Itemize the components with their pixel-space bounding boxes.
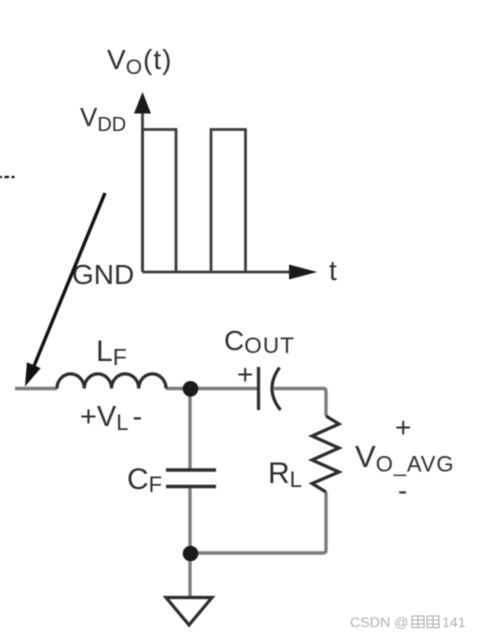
node watermark CSDN bbox=[350, 615, 466, 631]
wire RL bottom to corner then left to node B bbox=[190, 492, 326, 553]
wire node B to ground bbox=[188, 553, 191, 598]
svg-text:GND: GND bbox=[72, 259, 134, 290]
wire dashed stub left edge bbox=[0, 176, 15, 178]
svg-text:VO_AVG: VO_AVG bbox=[355, 439, 454, 477]
svg-text:t: t bbox=[329, 255, 337, 286]
svg-text:+VL-: +VL- bbox=[80, 401, 142, 435]
svg-text:CSDN @: CSDN @ bbox=[350, 615, 409, 631]
svg-text:VO(t): VO(t) bbox=[107, 44, 172, 79]
wire inductor to node A bbox=[166, 387, 190, 390]
svg-text:VDD: VDD bbox=[80, 102, 126, 136]
node voltage axis arrowhead bbox=[134, 92, 151, 114]
wire CF to node B bbox=[188, 487, 191, 554]
inductor LF bbox=[57, 374, 166, 389]
wire node A down to CF bbox=[188, 389, 191, 471]
wire node A to COUT bbox=[190, 387, 259, 390]
svg-text:LF: LF bbox=[96, 335, 127, 370]
wire horizontal time axis bbox=[143, 271, 293, 274]
node time axis arrowhead bbox=[289, 265, 317, 280]
wire vertical voltage axis bbox=[141, 108, 144, 272]
capacitor COUT plates bbox=[257, 367, 260, 410]
svg-text:141: 141 bbox=[442, 615, 466, 631]
svg-text:-: - bbox=[398, 475, 407, 506]
wire input lead bbox=[15, 387, 57, 390]
ground bbox=[166, 598, 212, 626]
svg-text:RL: RL bbox=[268, 457, 302, 492]
wire COUT to corner then down to RL bbox=[274, 389, 326, 417]
svg-text:+: + bbox=[237, 359, 253, 390]
node A junction dot bbox=[183, 381, 199, 397]
capacitor CF plates bbox=[166, 468, 216, 471]
wire waveform pulse 2 bbox=[211, 130, 246, 273]
node B junction dot bbox=[183, 546, 199, 562]
resistor RL zigzag bbox=[312, 416, 339, 492]
wire waveform pulse 1 bbox=[143, 130, 177, 273]
wire annotation arrow to input bbox=[34, 193, 105, 366]
svg-text:+: + bbox=[395, 412, 411, 443]
svg-text:CF: CF bbox=[127, 463, 162, 497]
svg-text:COUT: COUT bbox=[224, 325, 295, 358]
